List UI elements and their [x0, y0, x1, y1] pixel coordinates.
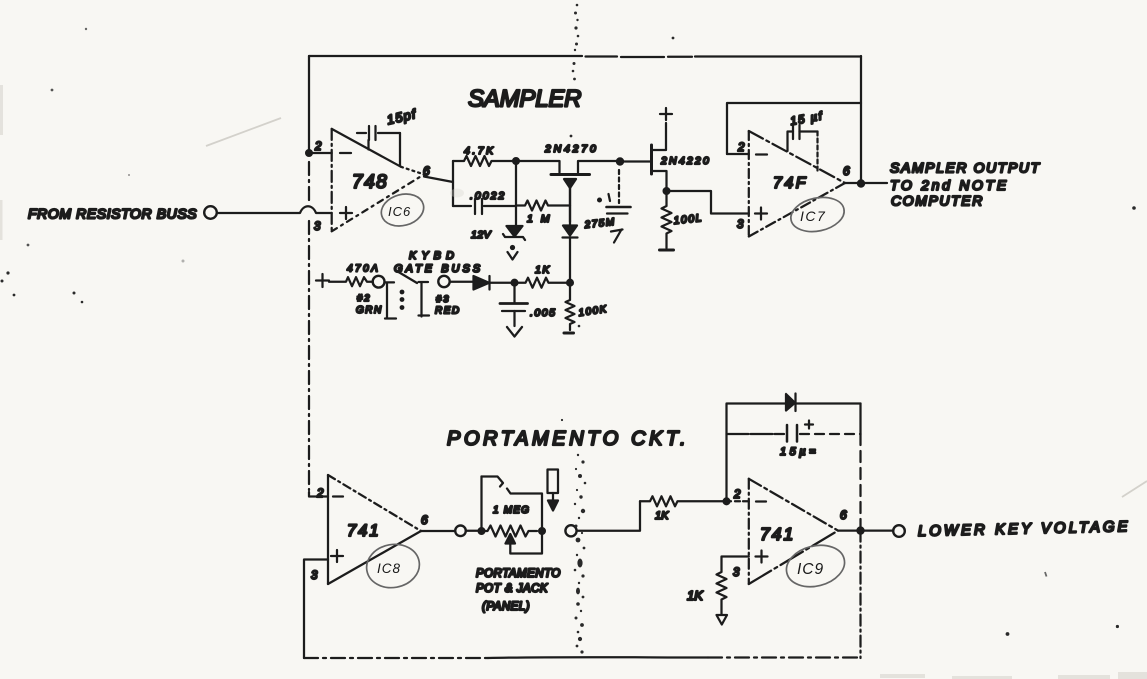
svg-text:GRN: GRN: [356, 305, 383, 316]
wire: bottom feedback bus (IC9 output to IC8 pin 3): [304, 656, 861, 659]
svg-text:1 MEG: 1 MEG: [493, 505, 530, 516]
junction: gate RC node: [512, 280, 518, 286]
resistor R4 470: [329, 264, 380, 287]
svg-text:2: 2: [737, 142, 745, 154]
wire: top feedback bus (IC7 output to IC6 pin 2): [309, 56, 861, 57]
wire: right bus down to IC7 output: [860, 56, 862, 184]
svg-text:100K: 100K: [578, 304, 609, 319]
capacitor C .005: [500, 283, 556, 326]
pin 6 label (IC6): [423, 164, 430, 178]
resistor R6 100K: [564, 283, 608, 333]
node: FROM RESISTOR BUSS terminal: [204, 206, 217, 219]
resistor R3 100L: [660, 191, 704, 250]
svg-text:4.7K: 4.7K: [464, 145, 496, 157]
resistor R1 4.7K: [453, 145, 516, 166]
svg-text:3: 3: [733, 567, 740, 579]
svg-text:741: 741: [347, 522, 381, 540]
svg-text:TO 2nd NOTE: TO 2nd NOTE: [890, 177, 1009, 193]
value label 748: [352, 172, 388, 193]
svg-text:POT & JACK: POT & JACK: [476, 583, 549, 595]
junction: RC network right node: [513, 158, 519, 227]
svg-text:100L: 100L: [673, 212, 703, 227]
zener diode D 12V: [471, 226, 525, 241]
svg-text:KYBD: KYBD: [409, 250, 459, 262]
svg-text:#2: #2: [357, 293, 372, 304]
designator oval IC6: [378, 189, 428, 230]
label: LOWER KEY VOLTAGE: [918, 518, 1131, 540]
svg-text:IC7: IC7: [800, 208, 826, 224]
transistor Q2 2N4220: [652, 108, 711, 191]
wire: IC8 pin 3 to bottom bus: [304, 560, 328, 659]
designator oval IC7: [788, 193, 848, 237]
junction: hold node: [617, 158, 623, 164]
pin 3 label (IC7): [737, 219, 744, 231]
svg-text:6: 6: [840, 508, 847, 522]
capacitor C .0022: [453, 190, 516, 214]
svg-text:15µ=: 15µ=: [780, 446, 819, 458]
supply + (key contact): [316, 274, 329, 287]
junction: IC7 output node: [858, 180, 864, 186]
value label 74F: [773, 175, 808, 192]
svg-text:FROM RESISTOR BUSS: FROM RESISTOR BUSS: [28, 206, 197, 222]
pin 3 label (IC6): [314, 221, 321, 233]
junction: pot right node: [539, 528, 545, 534]
wire: input to IC6 pin 3 (hops over left bus): [218, 206, 332, 213]
svg-text:.0022: .0022: [470, 190, 506, 202]
svg-text:275M: 275M: [583, 217, 616, 231]
jack plug symbol: [548, 470, 559, 511]
wire: IC7 feedback loop: [727, 103, 861, 154]
op-amp U IC8 741: [309, 475, 454, 584]
svg-text:748: 748: [352, 172, 388, 193]
svg-text:1K: 1K: [535, 264, 551, 276]
svg-text:GATE BUSS: GATE BUSS: [394, 263, 483, 275]
junction: 2N4220 source node: [664, 188, 670, 194]
title: PORTAMENTO CKT.: [447, 428, 689, 450]
svg-text:COMPUTER: COMPUTER: [891, 193, 984, 209]
value label 741 (IC9): [760, 524, 795, 544]
svg-text:PORTAMENTO: PORTAMENTO: [476, 568, 561, 580]
op-amp U IC7 74F: [727, 131, 887, 237]
resistor R7 1K (IC9 input): [640, 496, 749, 522]
svg-text:12V: 12V: [471, 229, 492, 241]
pin 6 label (IC8): [421, 513, 428, 527]
svg-text:3: 3: [311, 570, 318, 582]
wire: feedback right leg / output bus: [859, 404, 861, 659]
wire: to pot: [466, 530, 482, 532]
node: IC6 output / RC network left: [452, 161, 454, 206]
svg-text:6: 6: [421, 513, 428, 527]
capacitor C 15pf (IC6 feedback): [357, 106, 418, 166]
diode D (IC9 feedback): [727, 394, 861, 412]
svg-text:.005: .005: [530, 307, 556, 319]
title: SAMPLER: [468, 86, 581, 113]
svg-text:2: 2: [733, 489, 741, 501]
svg-text:#3: #3: [436, 294, 451, 305]
pin 2 label (IC7): [737, 142, 745, 154]
svg-text:(PANEL): (PANEL): [482, 601, 530, 613]
svg-text:SAMPLER OUTPUT: SAMPLER OUTPUT: [890, 160, 1041, 176]
resistor R5 1K (gate): [515, 264, 568, 288]
resistor R2 1M: [516, 201, 570, 226]
switch: keyboard contact: [385, 271, 429, 319]
svg-text:3: 3: [314, 221, 321, 233]
svg-text:IC9: IC9: [797, 561, 824, 578]
svg-text:3: 3: [737, 219, 744, 231]
terminal #2 GRN: [356, 276, 385, 316]
value label 741 (IC8): [347, 522, 381, 540]
ground (zener): [508, 246, 518, 260]
junction: left bus / IC6 pin 2: [306, 150, 312, 156]
capacitor C 15uF (IC9 feedback): [727, 421, 861, 459]
junction: pot left node: [479, 528, 485, 534]
svg-text:1K: 1K: [655, 510, 669, 522]
ground (hold cap): [611, 230, 623, 243]
svg-text:470Λ: 470Λ: [347, 264, 380, 275]
wire: hold node to 2N4220: [620, 160, 651, 162]
svg-text:1K: 1K: [687, 588, 704, 603]
wire: IC9 feedback left leg: [725, 404, 727, 501]
svg-text:2: 2: [314, 141, 322, 153]
diode D (2N4270 gate): [563, 188, 578, 283]
svg-text:741: 741: [760, 524, 795, 544]
label: FROM RESISTOR BUSS: [28, 206, 197, 222]
op-amp U IC9 741: [749, 479, 893, 584]
pin 6 label (IC9): [840, 508, 847, 522]
svg-text:1 M: 1 M: [527, 213, 552, 225]
ground (.005 cap): [507, 327, 522, 337]
capacitor C 275M (hold): [583, 170, 630, 231]
transistor Q1 2N4270: [516, 143, 620, 222]
pin 2 label (IC6): [314, 141, 322, 153]
designator oval IC9: [782, 539, 849, 592]
svg-text:2: 2: [316, 488, 324, 500]
label: KYBD GATE BUSS: [394, 250, 483, 275]
pin 6 label (IC7): [843, 164, 850, 178]
pin 2 label (IC9): [733, 489, 741, 501]
diode D (gate buss): [450, 276, 514, 290]
label: sampler output: [890, 160, 1041, 209]
capacitor C 15pf (IC7 feedback): [788, 110, 825, 171]
terminal: lower key voltage output: [893, 525, 905, 537]
junction: gate drive node: [567, 280, 573, 286]
pin 3 label (IC8): [311, 570, 318, 582]
svg-text:IC8: IC8: [377, 561, 401, 576]
terminal #3 RED: [435, 276, 461, 317]
svg-text:74F: 74F: [773, 175, 808, 192]
svg-text:RED: RED: [435, 306, 461, 317]
junction: IC9 pin2 / feedback: [724, 498, 730, 504]
svg-text:SAMPLER: SAMPLER: [468, 86, 581, 113]
label: portamento pot & jack (panel): [476, 568, 561, 613]
ground (IC9 pin 3): [717, 615, 728, 625]
terminal: IC8 output jack: [455, 526, 466, 537]
designator oval IC8: [363, 540, 423, 592]
svg-text:2N4220: 2N4220: [660, 155, 711, 167]
wire: left bus (top border to IC6 pin2 and IC8 pin2): [308, 56, 310, 490]
svg-text:IC6: IC6: [388, 204, 411, 219]
pin 3 label (IC9): [733, 567, 740, 579]
junction: IC9 output node: [857, 528, 863, 534]
svg-text:LOWER KEY VOLTAGE: LOWER KEY VOLTAGE: [918, 518, 1131, 540]
svg-text:15 µf: 15 µf: [789, 110, 824, 128]
svg-text:6: 6: [423, 164, 430, 178]
op-amp U IC6 748: [309, 129, 453, 231]
wire: pot to 1K: [577, 501, 640, 531]
potentiometer R 1MEG with jack switch: [482, 477, 543, 554]
svg-text:PORTAMENTO CKT.: PORTAMENTO CKT.: [447, 428, 689, 450]
terminal: pot output jack: [565, 525, 576, 536]
svg-text:6: 6: [843, 164, 850, 178]
resistor R8 1K (IC9 pin 3): [687, 557, 749, 615]
svg-text:2N4270: 2N4270: [544, 143, 599, 155]
svg-text:15pf: 15pf: [385, 106, 418, 127]
wire: source follower to IC7 pin 3: [667, 191, 749, 214]
pin 2 label (IC8): [316, 488, 324, 500]
